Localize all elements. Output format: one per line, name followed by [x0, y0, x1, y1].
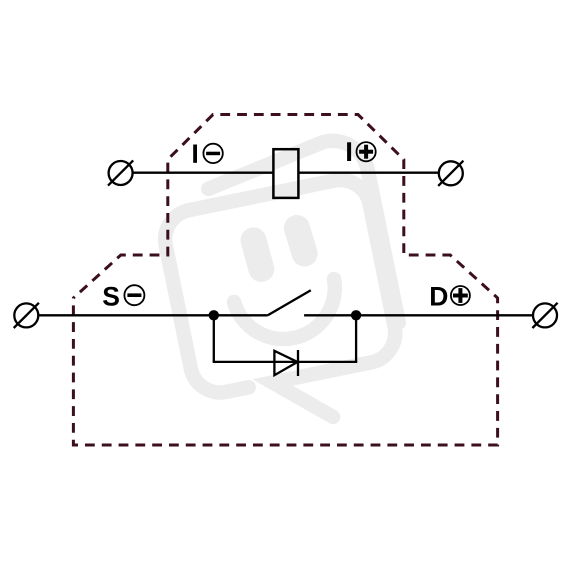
coil (relay input) rectangle [273, 149, 298, 198]
svg-text:D: D [429, 281, 448, 311]
terminal I- (top left) [108, 160, 133, 185]
symbol circled plus (I+) [357, 142, 376, 161]
symbol circled minus (S-) [124, 285, 144, 305]
symbol circled plus (D+) [451, 286, 470, 305]
symbol circled minus (I-) [203, 144, 222, 163]
label I- [193, 145, 197, 163]
svg-text:S: S [102, 281, 120, 311]
switch blade [268, 290, 311, 315]
label I+ [347, 142, 351, 161]
terminal S- (bottom left) [14, 303, 39, 328]
diode D1 [274, 350, 298, 376]
terminal I+ (top right) [438, 161, 463, 186]
junction node right [351, 310, 361, 320]
wire bottom right [304, 314, 533, 316]
wire bottom left [39, 314, 268, 316]
wire diode branch [213, 361, 358, 363]
wire left drop to diode [213, 315, 215, 362]
dashed enclosure outline [73, 115, 497, 446]
watermark logo (plug) [152, 134, 415, 442]
junction node left [209, 310, 219, 320]
terminal D+ (bottom right) [532, 303, 557, 328]
wire top left [133, 172, 274, 174]
wire right drop to diode [355, 315, 357, 362]
wire top right [298, 172, 439, 174]
